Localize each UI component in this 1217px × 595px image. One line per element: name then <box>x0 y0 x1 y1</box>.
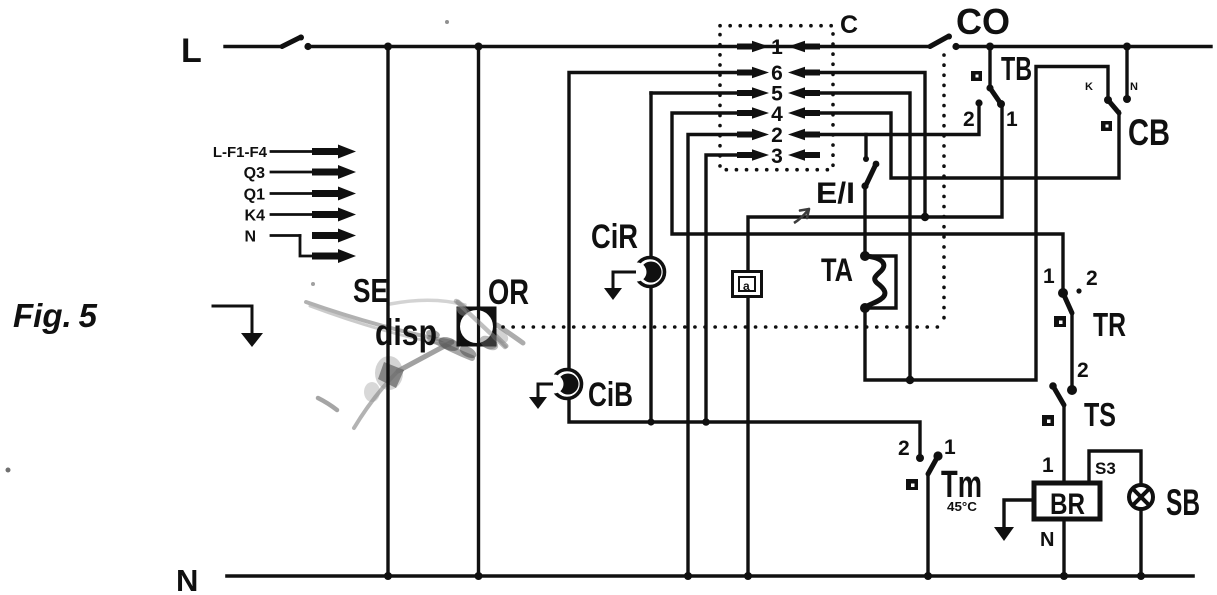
svg-text:E/I: E/I <box>816 177 855 210</box>
svg-text:TR: TR <box>1093 306 1126 343</box>
svg-text:N: N <box>176 563 198 595</box>
svg-text:Q1: Q1 <box>244 187 265 204</box>
svg-text:L: L <box>181 32 202 70</box>
svg-text:Fig.5: Fig.5 <box>13 297 98 334</box>
svg-text:BR: BR <box>1050 488 1085 521</box>
svg-text:N: N <box>1040 529 1054 551</box>
svg-text:1: 1 <box>1042 454 1054 477</box>
svg-text:a: a <box>743 279 750 293</box>
svg-text:2: 2 <box>1077 359 1089 382</box>
svg-text:2: 2 <box>963 108 975 131</box>
svg-text:SE: SE <box>353 272 388 309</box>
svg-text:disp: disp <box>375 312 437 353</box>
svg-text:1: 1 <box>1006 108 1018 131</box>
svg-text:45°C: 45°C <box>947 499 978 514</box>
svg-text:CB: CB <box>1128 112 1170 153</box>
svg-text:CiR: CiR <box>591 218 638 256</box>
svg-text:TB: TB <box>1001 50 1032 87</box>
svg-text:N: N <box>1130 81 1138 93</box>
svg-text:K4: K4 <box>245 208 266 225</box>
svg-text:1: 1 <box>944 436 956 459</box>
svg-text:Q3: Q3 <box>244 165 265 182</box>
svg-text:C: C <box>840 11 858 39</box>
svg-text:2: 2 <box>771 124 783 147</box>
svg-text:3: 3 <box>771 145 783 168</box>
svg-text:1: 1 <box>1043 265 1055 288</box>
svg-text:1: 1 <box>771 36 783 59</box>
svg-text:S3: S3 <box>1095 459 1116 478</box>
svg-text:CiB: CiB <box>588 376 633 414</box>
svg-text:2: 2 <box>1086 267 1098 290</box>
svg-text:N: N <box>244 229 256 246</box>
svg-text:2: 2 <box>898 437 910 460</box>
svg-text:K: K <box>1085 81 1093 93</box>
svg-text:TS: TS <box>1084 396 1116 433</box>
svg-text:OR: OR <box>488 273 529 312</box>
svg-text:L-F1-F4: L-F1-F4 <box>213 144 268 161</box>
svg-text:SB: SB <box>1166 482 1200 523</box>
svg-text:TA: TA <box>821 252 853 288</box>
svg-text:4: 4 <box>771 103 783 126</box>
svg-text:CO: CO <box>956 1 1010 42</box>
